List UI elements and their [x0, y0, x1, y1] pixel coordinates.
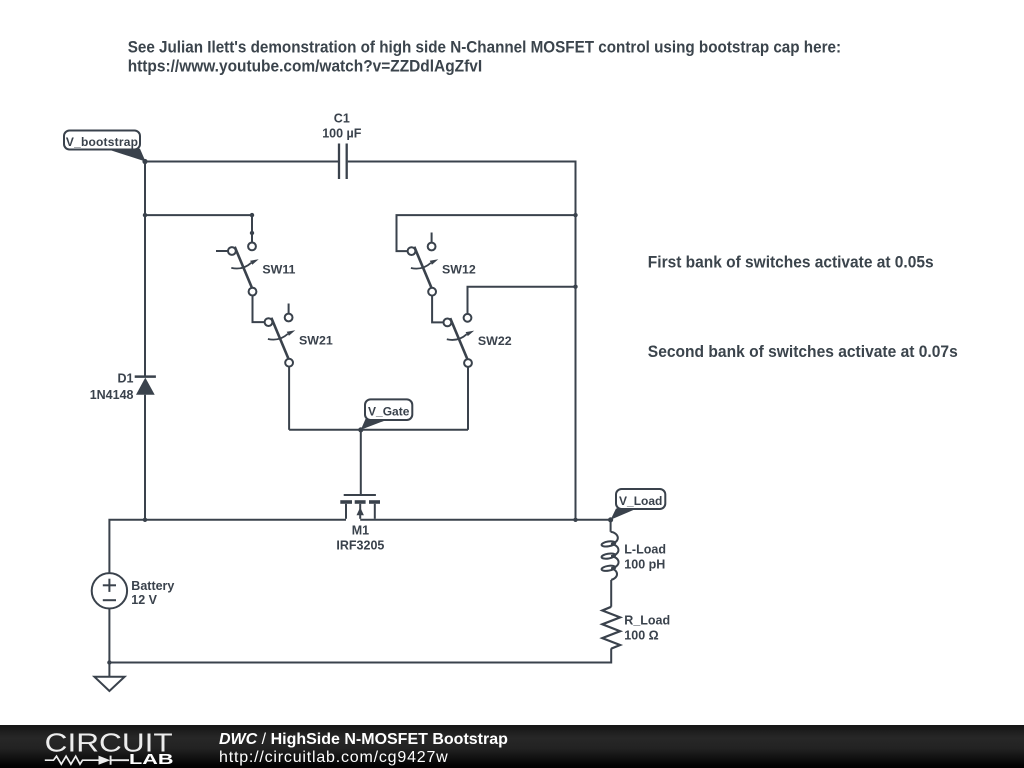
wire SW12 bottom to SW22 left [432, 296, 443, 323]
svg-text:1N4148: 1N4148 [90, 388, 134, 402]
M1 body arrow [357, 507, 364, 515]
wire SW12 left link to right rail [397, 215, 576, 251]
svg-text:SW21: SW21 [299, 334, 333, 348]
circuitlab logo [0, 725, 200, 768]
switch SW21 [265, 304, 333, 367]
junction left rail / SW rail [143, 213, 147, 217]
node V_bootstrap junction [142, 159, 147, 164]
junction right rail / SW22 link [573, 285, 577, 289]
svg-text:Second bank of switches activa: Second bank of switches activate at 0.07… [648, 344, 958, 361]
svg-text:SW11: SW11 [262, 262, 295, 276]
wire rail y215 to SW11 [145, 214, 252, 216]
wire SW22 bottom drop [467, 367, 469, 430]
svg-text:SW12: SW12 [442, 263, 476, 277]
wire inductor to resistor [610, 580, 612, 607]
L-Load value labels [624, 543, 666, 572]
svg-text:V_bootstrap: V_bootstrap [66, 135, 138, 149]
svg-text:V_Gate: V_Gate [368, 405, 410, 419]
wire ground stub [108, 663, 110, 677]
flag V_Load [611, 489, 666, 520]
junction D1 / source rail [143, 518, 147, 522]
D1 value labels [90, 371, 134, 402]
junction SW11 top rail [250, 213, 254, 217]
svg-text:100 µF: 100 µF [322, 127, 362, 141]
svg-text:C1: C1 [334, 112, 350, 126]
wire SW22 top link to right rail [468, 287, 576, 314]
wire resistor to bottom rail [109, 648, 611, 662]
wire V_Load to inductor [610, 520, 612, 532]
wire top rail right of C1 [348, 161, 576, 163]
svg-text:See Julian Ilett's demonstrati: See Julian Ilett's demonstration of high… [128, 39, 841, 57]
note: youtube annotation [128, 39, 958, 361]
svg-text:https://www.youtube.com/watch?: https://www.youtube.com/watch?v=ZZDdlAgZ… [128, 58, 482, 75]
switch SW22 [444, 304, 512, 367]
svg-text:SW22: SW22 [478, 334, 512, 348]
wire SW11 bottom to SW21 left [253, 295, 265, 322]
R_Load value labels [624, 613, 670, 642]
wire battery top to drain rail [109, 520, 346, 573]
wire battery bottom [108, 609, 110, 663]
svg-text:L-Load: L-Load [624, 543, 666, 557]
flag V_Gate [361, 399, 413, 429]
diode D1 [135, 377, 156, 395]
wire SW11 top drop [251, 215, 253, 243]
junction SW11 terminal stub [250, 231, 254, 235]
wire source rail to V_Load [360, 519, 610, 521]
svg-text:IRF3205: IRF3205 [336, 538, 384, 552]
svg-text:First bank of switches activat: First bank of switches activate at 0.05s [648, 254, 934, 271]
switch SW11 [216, 233, 296, 295]
wire gate vertical [360, 430, 362, 494]
node V_Load junction [608, 517, 613, 522]
node V_Gate junction [358, 427, 363, 432]
note: first bank [648, 254, 934, 271]
resistor R_Load [602, 607, 620, 649]
battery value labels [131, 579, 174, 607]
junction right rail / load rail [573, 518, 577, 522]
switch SW12 [408, 233, 476, 296]
junction battery negative / ground [107, 660, 111, 664]
wire left vertical V_bootstrap to D1 [144, 162, 146, 377]
M1 value labels [336, 523, 384, 552]
flag V_bootstrap [64, 131, 146, 162]
svg-text:V_Load: V_Load [619, 494, 662, 508]
wire SW21 bottom drop [288, 367, 290, 430]
svg-text:100 pH: 100 pH [624, 558, 665, 572]
svg-text:Battery: Battery [131, 579, 174, 593]
svg-text:R_Load: R_Load [624, 613, 670, 627]
C1 value labels [322, 112, 362, 141]
svg-text:D1: D1 [118, 371, 134, 385]
wire D1 anode to bottom rail [144, 395, 146, 520]
note: second bank [648, 344, 958, 361]
ground [94, 677, 124, 691]
capacitor C1 [339, 144, 347, 180]
svg-text:LAB: LAB [129, 752, 174, 768]
footer bar [0, 725, 1024, 768]
wire right vertical rail [575, 161, 577, 520]
wire V_Gate rail [289, 429, 468, 431]
transistor M1 [340, 495, 380, 519]
svg-text:M1: M1 [352, 523, 369, 537]
wire top rail left of C1 [145, 161, 339, 163]
svg-text:100 Ω: 100 Ω [624, 628, 658, 642]
battery V1 [92, 573, 127, 608]
junction right rail / SW12 link [573, 213, 577, 217]
svg-text:12 V: 12 V [131, 593, 157, 607]
inductor L-Load [601, 532, 618, 580]
